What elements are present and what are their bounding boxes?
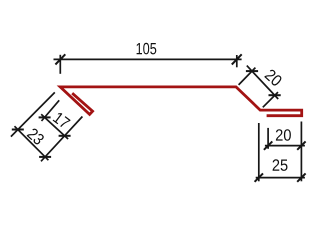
- dim 25 bottom: tick left: [255, 173, 263, 181]
- dim 23: dimension line: [15, 126, 49, 160]
- dim 20 slope: tick lower: [269, 94, 281, 96]
- dim 17: tick lower: [59, 135, 71, 137]
- dim 23: tick lower: [39, 156, 51, 158]
- dim 105: dimension line: [54, 58, 242, 60]
- dim 17/23: extension line from hem inner end: [42, 100, 60, 121]
- dim 20 bottom: extension line middle: [267, 128, 269, 149]
- dim 20 slope: extension line from top bend: [239, 68, 256, 85]
- dim 20 bottom: dimension line: [265, 145, 305, 147]
- dim 23: tick upper: [12, 129, 24, 131]
- dim 17: dimension line: [41, 114, 68, 139]
- dim 20/25 bottom: extension line right: [300, 122, 302, 182]
- dim 25 bottom: tick right: [297, 173, 305, 181]
- dim 20 bottom: tick left: [264, 141, 272, 149]
- dim 17: tick upper: [39, 116, 51, 118]
- dim 20 bottom: extension line left: [258, 123, 260, 181]
- dim 105: extension line right: [236, 55, 238, 67]
- dim 20 bottom: tick right: [297, 141, 305, 149]
- dim 20 slope: tick upper: [246, 70, 258, 72]
- label 17: [53, 112, 71, 129]
- label 25 bottom: [273, 159, 288, 171]
- dim 17/23: extension line from fold: [41, 117, 82, 162]
- dim 17/23: extension line from apex: [11, 92, 55, 136]
- dim 105: tick left: [55, 54, 65, 64]
- label 105: [137, 43, 157, 55]
- dim 105: extension line left: [59, 55, 61, 74]
- dim 105: tick right: [232, 54, 242, 64]
- dim 25 bottom: dimension line: [256, 177, 305, 179]
- dim 20 slope: dimension line: [247, 66, 278, 99]
- label 23: [26, 127, 45, 145]
- label 20 slope: [264, 68, 283, 87]
- profile outline (red flashing): [60, 87, 302, 116]
- label 20 bottom: [276, 129, 291, 141]
- dim 20 slope: extension line from bottom bend: [263, 92, 278, 107]
